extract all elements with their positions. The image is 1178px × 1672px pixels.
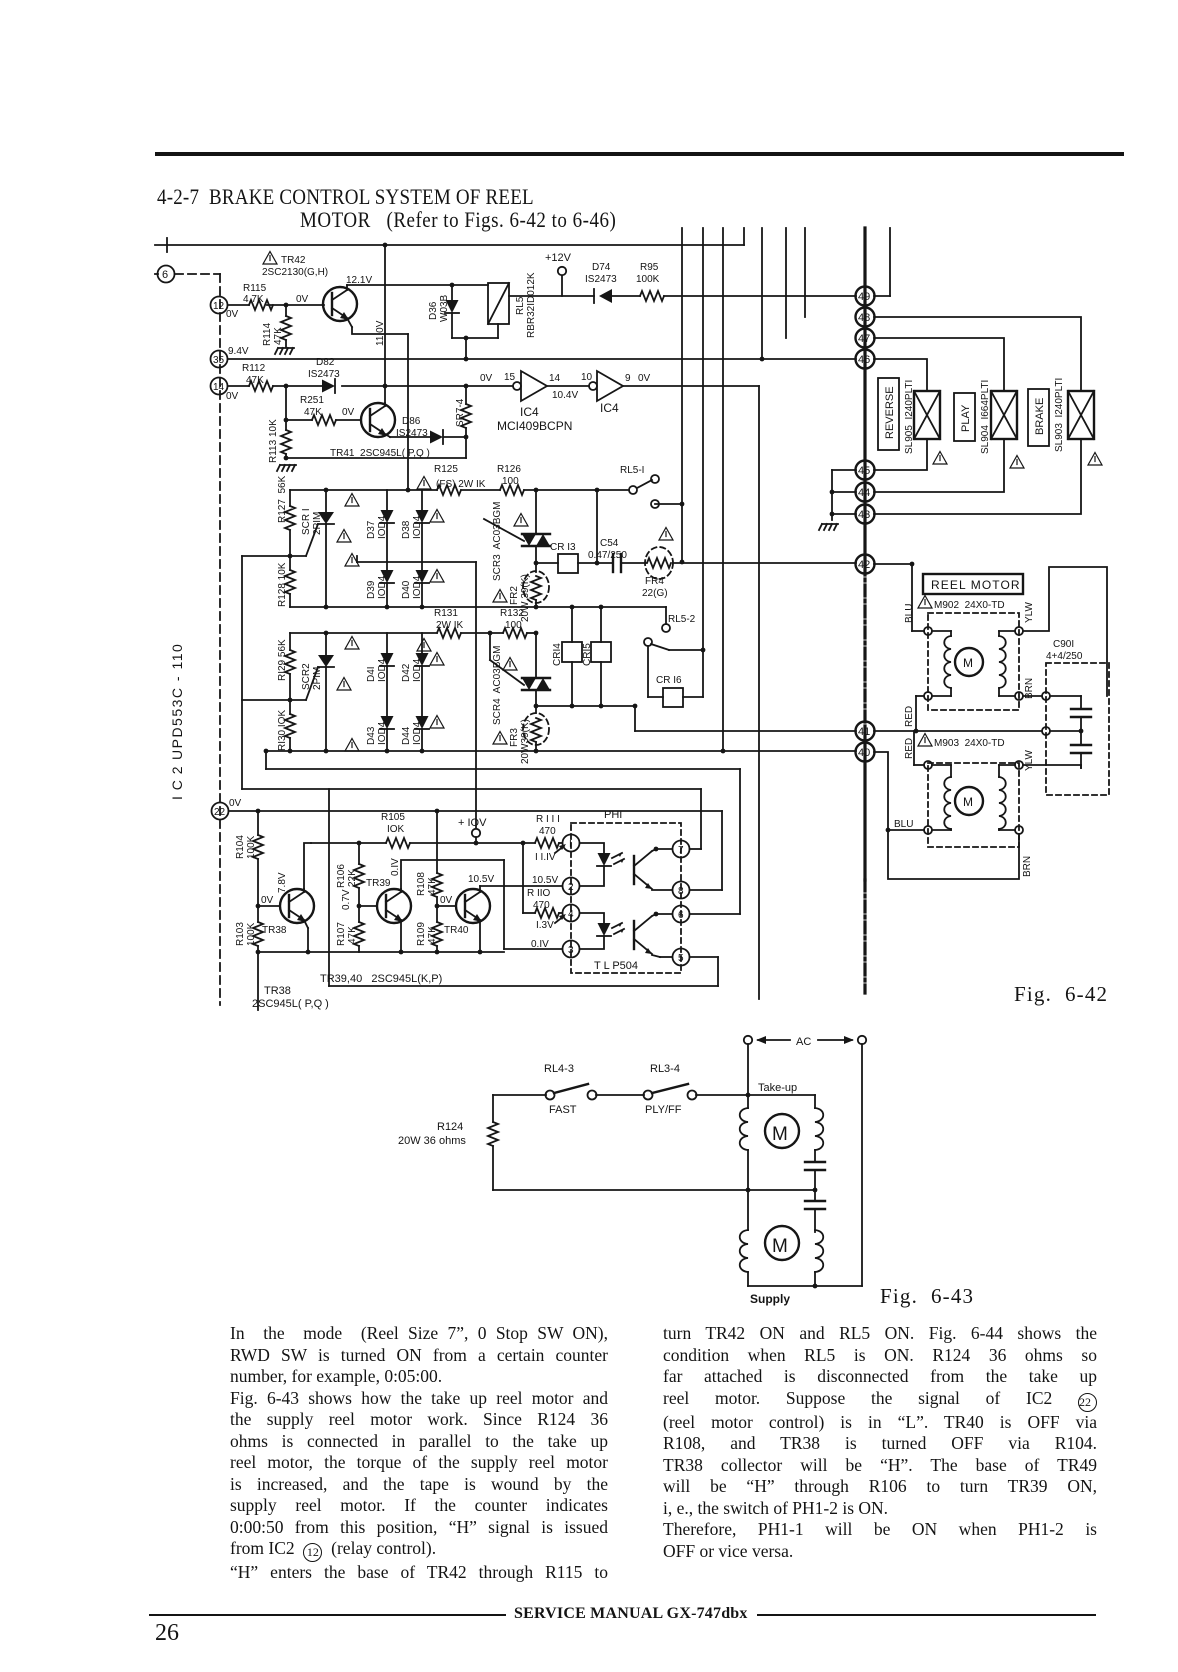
svg-text:+12V: +12V [545,252,572,264]
wire: y769 frame (pin6 net) [265,751,267,769]
svg-text:M902 24X0-TD: M902 24X0-TD [934,600,1005,611]
svg-text:14: 14 [549,373,561,384]
wire: R106/R107 column x359 [358,843,360,864]
svg-text:0V: 0V [480,373,493,384]
node 44 [856,483,875,502]
wire: y706 rail SCR4 to CR16 [536,705,635,707]
wire: SCR2 gate row [242,699,306,701]
solenoid SL904 PLAY [991,391,1017,439]
svg-text:44: 44 [858,487,870,499]
svg-text:D38: D38 [401,520,412,539]
svg-text:BLU: BLU [894,819,913,830]
svg-text:6: 6 [162,269,168,281]
wire: node12 to TR42 base [228,304,249,306]
svg-text:MCI409BCPN: MCI409BCPN [497,419,572,433]
svg-text:R125: R125 [434,464,458,475]
svg-text:0.47/250: 0.47/250 [588,550,627,561]
capacitor take-up [805,1161,825,1163]
svg-text:12: 12 [213,301,225,312]
ground under R114 [275,348,294,354]
svg-text:IOD4: IOD4 [377,515,388,539]
svg-text:R109: R109 [416,922,427,946]
svg-text:RBR32ID012K: RBR32ID012K [526,272,537,338]
solenoid SL905 REVERSE [914,391,940,439]
svg-text:9: 9 [625,373,631,384]
svg-text:RL4-3: RL4-3 [544,1063,574,1075]
svg-text:35: 35 [213,355,225,366]
LED PH1-1 [580,843,604,853]
triac SCR3 [535,490,537,534]
wire: mid rail y1190 [493,1189,815,1191]
svg-text:IOD4: IOD4 [412,575,423,599]
svg-text:10: 10 [581,372,593,383]
motor M902 [918,596,932,609]
svg-text:IS2473: IS2473 [396,428,428,439]
wire: 11.0V line x385 [384,245,386,403]
svg-text:I I.IV: I I.IV [535,852,556,863]
svg-text:SCR3 AC03BGM: SCR3 AC03BGM [492,502,503,581]
svg-text:BRN: BRN [1022,856,1033,877]
svg-text:R105: R105 [381,812,405,823]
svg-text:TR42: TR42 [281,255,306,266]
svg-text:PLAY: PLAY [960,404,972,432]
svg-text:20W39(K): 20W39(K) [520,719,531,764]
wire: RL5-1 to x890 vertical [655,503,682,505]
wire: mid rail y562 [357,561,476,563]
svg-text:YLW: YLW [1024,602,1035,623]
svg-text:470: 470 [539,826,556,837]
wire: M903 YLW to C901 [1023,764,1081,766]
svg-text:R115: R115 [243,283,267,294]
wire: AC left drop [747,1044,749,1095]
transistor TR39 [359,905,377,907]
svg-text:22(G): 22(G) [642,588,668,599]
svg-text:CRI5: CRI5 [582,643,593,666]
svg-text:R IIO: R IIO [527,888,551,899]
svg-text:FR3: FR3 [509,728,520,747]
svg-text:SR7-4: SR7-4 [455,398,466,427]
svg-text:TR38: TR38 [264,985,291,997]
svg-text:7.8V: 7.8V [277,872,288,893]
diode D74 [593,289,595,303]
LED PH1-2 [580,913,604,923]
svg-text:IOD4: IOD4 [412,515,423,539]
fusible resistor FR3 [534,704,539,709]
svg-text:IS2473: IS2473 [585,274,617,285]
resistor R105 [386,838,410,848]
svg-text:49: 49 [858,291,870,303]
node 42 [856,555,875,574]
node 6 [158,266,175,283]
svg-text:20W 36 ohms: 20W 36 ohms [398,1135,466,1147]
wire: SCR2 left rail x290 with R129 R130 [289,633,291,650]
solenoid SL903 BRAKE [1068,391,1094,439]
svg-text:RI29 56K: RI29 56K [277,639,288,681]
svg-text:48: 48 [858,312,870,324]
resistor R115 [249,300,273,310]
svg-text:4.7K: 4.7K [243,294,264,305]
svg-text:C90I: C90I [1053,639,1074,650]
wire: SL903 to node43 [874,439,1081,514]
pin 8 [673,882,690,899]
capacitor C54 [578,562,613,564]
svg-text:RL5-2: RL5-2 [668,614,696,625]
wire: bottom rail y751 to node 40 [266,750,856,752]
svg-text:22: 22 [214,807,226,818]
svg-text:IS2473: IS2473 [308,369,340,380]
wire: y789 frame (pin7 net) [242,788,701,790]
thyristor SCR2 [325,633,327,655]
svg-text:CR I6: CR I6 [656,675,682,686]
phototransistor PH1-1 [633,856,635,884]
svg-text:47K: 47K [304,407,322,418]
resistor R124 [492,1095,494,1122]
svg-text:2PIM: 2PIM [312,512,323,535]
rectifier CR15 [600,607,602,642]
wire: vertical bus lines from top [681,228,683,562]
footer rules and text [149,1614,506,1616]
svg-text:0V: 0V [440,895,453,906]
wire: AC right drop [861,1044,863,1286]
svg-text:IOD4: IOD4 [377,658,388,682]
svg-text:100K: 100K [636,274,660,285]
svg-text:100K: 100K [246,922,257,946]
svg-text:R124: R124 [437,1121,463,1133]
svg-text:M: M [772,1236,788,1257]
svg-text:IC4: IC4 [520,405,539,419]
svg-text:41: 41 [858,726,870,738]
svg-text:45: 45 [858,465,870,477]
svg-text:RL5: RL5 [515,296,526,315]
resistor R126 [500,485,524,495]
wire: M902 RED to node41 [916,695,924,697]
wire: SL905 to node45 [874,439,927,470]
svg-text:0V: 0V [342,407,355,418]
svg-text:Supply: Supply [750,1292,790,1306]
svg-text:D44: D44 [401,726,412,745]
wire: pin8 riser [690,889,722,891]
svg-text:2PIM: 2PIM [312,667,323,690]
svg-text:W03B: W03B [439,294,450,322]
wire: SCR1 left rail x290 with R127 R128 [289,490,291,506]
wire: BRN to C901 [1023,695,1042,697]
svg-text:D4I: D4I [366,666,377,682]
svg-text:R103: R103 [235,922,246,946]
wire: node48 to SL903 [874,317,1081,391]
svg-text:R108: R108 [416,872,427,896]
svg-text:D39: D39 [366,580,377,599]
svg-text:TR38: TR38 [262,925,287,936]
wire: RL5 right to D74 [509,295,594,297]
svg-text:YLW: YLW [1024,750,1035,771]
pin 1 [563,835,580,852]
svg-text:SCR2: SCR2 [301,663,312,690]
transistor TR42 [323,287,357,321]
svg-text:D82: D82 [316,357,335,368]
svg-text:10.5V: 10.5V [532,875,558,886]
wire: pin8 riser x722 to node22 line [721,811,723,890]
svg-text:0V: 0V [261,895,274,906]
wire: base row R251 [284,418,289,423]
svg-text:I C 2: I C 2 [169,765,185,800]
wire: left column x258 [257,811,259,835]
pin 7 [673,841,690,858]
svg-text:M: M [963,795,973,809]
svg-text:R106: R106 [336,864,347,888]
svg-text:47K: 47K [427,926,438,944]
svg-text:9.4V: 9.4V [228,346,249,357]
svg-text:2W IK: 2W IK [436,620,464,631]
svg-text:SCR I: SCR I [301,508,312,535]
wire: pin6 to frame [690,913,740,915]
node 22 [212,803,229,820]
svg-text:R113 10K: R113 10K [268,419,279,463]
REEL MOTOR box [923,574,1023,594]
svg-text:R I I I: R I I I [536,814,560,825]
wire: node41 to C901 mid [874,730,1042,732]
thyristor SCR1 [325,490,327,512]
svg-text:PHI: PHI [604,809,622,821]
resistor R110 [535,908,559,918]
optocoupler PH1 dashed box [571,823,681,973]
wire: 9.4V rail to node 46 [228,358,856,360]
wire: node46 to SL905 [874,359,927,391]
svg-text:D86: D86 [402,416,421,427]
capacitor supply [814,1190,816,1201]
svg-text:R112: R112 [242,363,266,374]
svg-text:SL903 I240PLTI: SL903 I240PLTI [1054,378,1065,452]
svg-text:Take-up: Take-up [758,1082,797,1094]
svg-text:T L P504: T L P504 [594,960,638,972]
svg-text:SL904 I664PLTI: SL904 I664PLTI [980,380,991,454]
svg-text:D37: D37 [366,520,377,539]
top rule [155,152,1124,156]
ground under R113 [277,465,296,471]
svg-text:47K: 47K [246,375,264,386]
svg-text:R107: R107 [336,922,347,946]
svg-text:11.0V: 11.0V [375,320,386,346]
svg-text:470: 470 [533,900,550,911]
svg-text:R132: R132 [500,608,524,619]
svg-text:M903 24X0-TD: M903 24X0-TD [934,738,1005,749]
wire: node42 to motor M902 [874,563,912,565]
svg-text:R127 56K: R127 56K [277,475,288,523]
diode D86 [390,436,430,438]
svg-text:42: 42 [858,559,870,571]
svg-text:IOD4: IOD4 [377,721,388,745]
svg-text:D40: D40 [401,580,412,599]
Fig 6-43: AC terminals [744,1036,752,1044]
pin 2 [563,878,580,895]
svg-text:D42: D42 [401,663,412,682]
rectifier CR16 [663,688,683,707]
wire: R108/R109 column x437 [436,811,438,873]
wire: emitter rail y952 to pin3 [258,951,504,953]
resistor R114 [285,305,287,316]
resistor R132 [503,628,527,638]
svg-text:PLY/FF: PLY/FF [645,1104,682,1116]
svg-text:UPD553C - 110: UPD553C - 110 [169,643,185,760]
wire: M902 YLW loop [1023,567,1107,696]
pin 5 [673,949,690,966]
svg-text:IOD4: IOD4 [412,658,423,682]
wire: bottom rail y1286 [748,1285,862,1287]
svg-text:IOD4: IOD4 [412,721,423,745]
wire: SL904 to node44 [874,439,1004,492]
transistor TR41 [361,403,395,437]
resistor R113 [285,386,287,430]
body text right column [663,1323,1097,1562]
wire: y843 rail (+10V / R105 / R111) [311,842,386,844]
svg-text:SL905 I240PLTI: SL905 I240PLTI [904,380,915,454]
svg-text:0V: 0V [296,294,309,305]
diodes D37 D38 [386,490,388,510]
wire: IC2 dashed bus [219,274,221,1005]
svg-text:+ IOV: + IOV [458,817,487,829]
arrow at pin1 [555,846,564,853]
svg-text:I.3V: I.3V [536,920,554,931]
wire: node47 to SL904 [874,338,1004,391]
svg-text:D36: D36 [428,301,439,320]
svg-text:R251: R251 [300,395,324,406]
svg-text:(FS) 2W IK: (FS) 2W IK [436,479,486,490]
node 47 [856,329,875,348]
resistor R131 [437,628,461,638]
motor: take-up [747,1095,749,1108]
pin 4 [563,905,580,922]
wire: pin5 out [690,956,718,958]
fusible resistor FR4 [645,547,673,579]
ground at 43 stub [819,524,838,530]
svg-text:100: 100 [502,476,519,487]
svg-text:REEL MOTOR: REEL MOTOR [931,578,1021,592]
svg-text:BLU: BLU [904,604,915,623]
triac SCR4 [489,633,491,660]
svg-text:6: 6 [678,910,684,921]
svg-text:M: M [772,1124,788,1145]
node 48 [856,308,875,327]
diode D36 [450,283,455,288]
svg-text:0V: 0V [226,309,239,320]
svg-text:2: 2 [568,882,574,893]
wire: TR40 collector to pin2 [480,885,562,887]
figure captions [1014,982,1108,1007]
arrow at pin4 [555,916,564,923]
wire: node14 row through D82 to IC4 [228,385,249,387]
svg-text:IOK: IOK [387,824,405,835]
wire: TR39/40 box [328,789,330,986]
svg-text:10.4V: 10.4V [552,390,578,401]
rectifier CR14 [571,607,573,642]
svg-text:5: 5 [678,953,684,964]
svg-text:M: M [963,656,973,670]
svg-text:100: 100 [505,620,522,631]
svg-text:IOD4: IOD4 [377,575,388,599]
resistor R95 [612,295,640,297]
rectifier CR13 [534,561,539,566]
svg-text:TR39: TR39 [366,878,391,889]
wire: emitter drop x408 to SCR rail [407,334,409,490]
svg-text:R114: R114 [262,322,273,346]
body text left column [230,1323,608,1584]
motor: supply [747,1190,749,1230]
svg-text:FR4: FR4 [645,576,664,587]
wire: TR38 collector riser to y843 [304,843,311,889]
resistor R111 [535,838,559,848]
wire: IC4b output to long vertical x759 [623,385,759,387]
svg-text:R104: R104 [235,835,246,859]
resistor SR7-4 [464,384,469,389]
diodes D39 D40 [380,570,394,583]
diodes D43 D44 [380,716,394,729]
transistor TR40 [437,905,456,907]
wire: TR42 collector to D36/RL5 [347,284,488,286]
svg-text:40: 40 [858,747,870,759]
resistor R125 [437,485,461,495]
node 45 [856,461,875,480]
svg-text:2SC2130(G,H): 2SC2130(G,H) [262,267,328,278]
wire: +10V feed vertical x473 [475,562,477,828]
heading line 2 [300,208,616,234]
node 12 [211,297,228,314]
node 35 [211,351,228,368]
svg-text:SCR4 AC03BGM: SCR4 AC03BGM [492,646,503,725]
svg-text:C54: C54 [600,538,619,549]
wire: TR41 emitter rail [286,457,466,459]
svg-text:14: 14 [213,382,225,393]
svg-text:I: I [569,839,572,850]
svg-text:47K: 47K [347,926,358,944]
wire: TR39 collector to pin3 net [401,860,504,889]
node 43 [856,505,875,524]
resistor R112 [249,381,273,391]
wire: D36/RL5 bottom rail [452,337,498,339]
svg-text:7: 7 [678,845,684,856]
svg-text:BRAKE: BRAKE [1034,398,1046,435]
svg-text:RED: RED [904,706,915,727]
phototransistor PH1-2 [633,921,635,949]
wire: x635 drop to node41 line [634,706,636,731]
svg-text:RL3-4: RL3-4 [650,1063,680,1075]
svg-text:4: 4 [568,909,574,920]
wire: dashed from node 6 [175,273,220,275]
svg-text:CRI4: CRI4 [552,643,563,666]
svg-text:0.IV: 0.IV [390,858,401,876]
svg-text:R128 10K: R128 10K [277,562,288,607]
svg-text:100K: 100K [246,835,257,859]
pin 3 [563,941,580,958]
wire: node41 line [635,730,856,732]
wire: switch row y1095 [493,1094,546,1096]
svg-text:0V: 0V [229,798,242,809]
wire: top horizontal rail [155,244,744,246]
heading line 1 [157,185,534,211]
svg-text:REVERSE: REVERSE [884,386,896,439]
svg-text:0.7V: 0.7V [341,889,352,910]
svg-text:15: 15 [504,372,516,383]
diodes D41 D42 [386,633,388,653]
svg-text:TR40: TR40 [444,925,469,936]
svg-text:8: 8 [678,886,684,897]
svg-text:D74: D74 [592,262,611,273]
svg-text:2SC945L( P,Q ): 2SC945L( P,Q ) [252,998,329,1010]
svg-text:43: 43 [858,509,870,521]
pin 6 [673,906,690,923]
svg-text:FAST: FAST [549,1104,577,1116]
svg-text:47K: 47K [427,877,438,895]
main bus x865 [863,228,866,564]
svg-text:3: 3 [568,945,574,956]
